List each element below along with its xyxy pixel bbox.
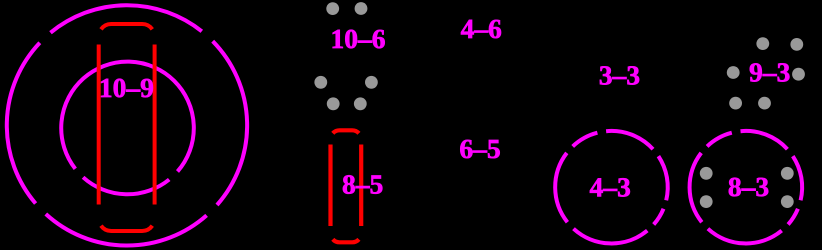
node label 4-3 bbox=[590, 178, 630, 196]
cluster boundary: red dashed rounded rect (middle figure) bbox=[331, 130, 362, 242]
cluster boundary: inner dashed circle (left figure) bbox=[61, 62, 194, 195]
cluster boundary: outer dashed circle (left figure) bbox=[7, 5, 247, 245]
gray node dots (10-6 cluster) bbox=[314, 2, 377, 110]
node label 4-6 bbox=[461, 20, 501, 38]
node label 6-5 bbox=[460, 140, 499, 158]
gray node dots (8-3 cluster) bbox=[700, 167, 794, 208]
cluster boundary: red dashed rounded rect (left figure) bbox=[99, 24, 155, 231]
node label 8-5 bbox=[343, 175, 382, 194]
node label 9-3 bbox=[750, 63, 790, 81]
gray node dots (9-3 cluster) bbox=[727, 37, 805, 109]
node label 3-3 bbox=[600, 66, 639, 84]
node label 10-9 bbox=[101, 79, 153, 98]
node label 8-3 bbox=[729, 178, 768, 197]
cluster boundary: dashed circle (4-3 figure) bbox=[555, 131, 668, 244]
node label 10-6 bbox=[333, 30, 385, 49]
cluster boundary: dashed circle (8-3 figure) bbox=[690, 131, 803, 244]
